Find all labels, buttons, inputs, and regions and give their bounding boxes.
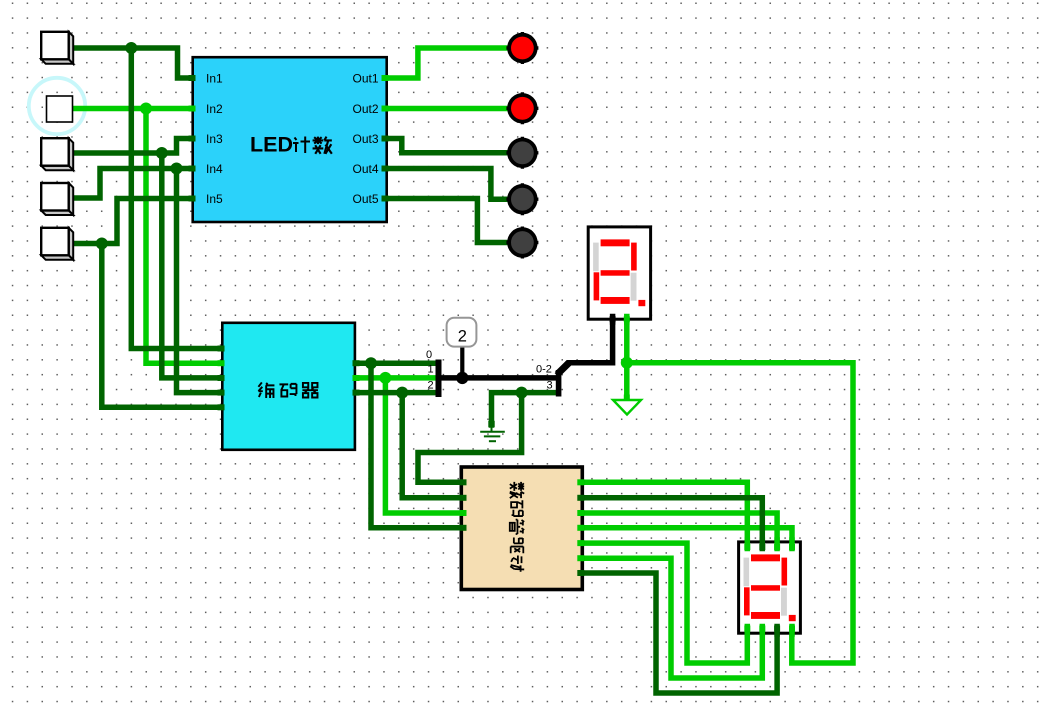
svg-text:In4: In4	[206, 162, 223, 176]
svg-text:In1: In1	[206, 72, 223, 86]
svg-text:Out4: Out4	[352, 162, 378, 176]
svg-text:Out1: Out1	[352, 72, 378, 86]
svg-text:0: 0	[426, 349, 432, 361]
svg-text:Out5: Out5	[352, 192, 378, 206]
svg-text:LED: LED	[250, 133, 293, 157]
svg-text:2: 2	[428, 380, 434, 392]
svg-text:0-2: 0-2	[536, 364, 552, 376]
svg-text:In5: In5	[206, 192, 223, 206]
svg-text:Out3: Out3	[352, 132, 378, 146]
svg-text:1: 1	[428, 364, 434, 376]
svg-text:Out2: Out2	[352, 102, 378, 116]
svg-text:3: 3	[547, 380, 553, 392]
svg-text:In2: In2	[206, 102, 223, 116]
svg-text:2: 2	[458, 328, 467, 346]
svg-text:In3: In3	[206, 132, 223, 146]
